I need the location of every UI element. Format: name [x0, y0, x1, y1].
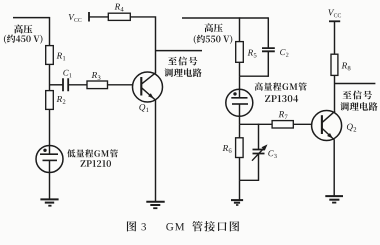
label C2	[280, 49, 285, 55]
wire: rail to R5	[239, 17, 241, 41]
label: ZP1210	[81, 160, 111, 167]
label: HV supply text 高压 (2)	[204, 23, 222, 32]
wire: R5 to join	[239, 62, 241, 76]
GM tube 2 envelope	[226, 89, 253, 116]
transistor Q1 collector stroke	[141, 73, 156, 85]
wire: GM tube 2 cathode to node B	[239, 104, 241, 124]
capacitor C2	[262, 48, 275, 51]
wire: node A to C1	[50, 84, 64, 86]
resistor R4	[108, 13, 130, 20]
wire: R4 to collector corner	[130, 16, 156, 73]
label: figure caption 图 3 GM 管接口图	[127, 221, 136, 231]
transistor Q1 emitter stroke	[141, 88, 155, 100]
label C1	[63, 70, 68, 76]
wire: join to GM tube 2	[239, 76, 241, 98]
resistor R6	[236, 138, 244, 158]
wire: output 2 branch	[335, 83, 376, 85]
label: 调理电路 (2)	[340, 102, 377, 111]
label C3	[268, 150, 273, 156]
wire: C1 to R3	[68, 84, 87, 86]
wire: rail to C2	[267, 17, 269, 48]
label R8	[342, 62, 348, 68]
label: (约550 V)	[194, 35, 233, 44]
wire: R2 to GM tube 1	[49, 109, 51, 154]
wire: C3 to bottom rail	[258, 154, 260, 181]
capacitor C1	[63, 78, 68, 91]
wire: bottom rail connector	[240, 179, 259, 181]
GM tube 1 lower electrode	[43, 159, 58, 161]
label R2	[57, 96, 63, 102]
label: 低量程GM管	[67, 149, 118, 157]
wire: R3 to Q1 base	[108, 84, 133, 86]
wire: C2 to join	[267, 51, 269, 77]
wire: divider top vertical	[49, 17, 51, 46]
ground: under Q1	[146, 201, 164, 203]
label R4	[115, 4, 121, 10]
label: 至信号 (1)	[168, 57, 197, 66]
ground: under GM tube 1	[40, 198, 58, 200]
capacitor C3 plates	[253, 150, 265, 154]
wire: bottom rail to ground	[239, 180, 241, 200]
wire: Q2 emitter to ground	[333, 140, 335, 197]
ground: under Q2	[325, 195, 343, 197]
wire: R6 to bottom rail	[239, 158, 241, 181]
ground: circuit 2 divider	[231, 199, 243, 201]
label: ZP1304	[265, 95, 298, 102]
transistor Q1 base bar	[140, 77, 142, 96]
transistor Q2 base bar	[321, 115, 323, 134]
transistor Q2 collector stroke	[322, 111, 335, 123]
GM tube 2 lower electrode	[232, 103, 248, 105]
label: 调理电路 (1)	[164, 68, 201, 77]
label R7	[279, 111, 285, 117]
label: (约450 V)	[4, 35, 43, 44]
resistor R3	[87, 81, 108, 89]
resistor R2	[46, 91, 54, 110]
wire: R1 to node A	[49, 64, 51, 90]
wire: R8 to Q2 collector	[334, 75, 336, 111]
wire: output 1 branch	[156, 50, 203, 52]
power Vcc2 label	[328, 9, 334, 15]
wire: Q1 emitter to ground	[155, 100, 157, 202]
transistor Q1 body	[133, 72, 163, 102]
resistor R5	[236, 42, 244, 63]
resistor R8	[331, 54, 338, 75]
label: 至信号 (2)	[343, 91, 372, 100]
wire: R7 to Q2 base	[293, 123, 311, 125]
label R6	[223, 145, 229, 151]
label R5	[248, 50, 254, 56]
power Vcc1 label	[69, 14, 75, 20]
GM tube 1 envelope	[36, 146, 63, 173]
GM tube 1 upper electrode	[40, 153, 58, 155]
resistor R1	[46, 46, 54, 65]
label R1	[57, 53, 63, 59]
wire: Vcc1 to R4	[89, 16, 108, 18]
GM tube 2 upper electrode	[231, 97, 247, 99]
wire: node B to C3 branch	[258, 124, 260, 150]
power Vcc2 terminal bar	[329, 20, 340, 22]
transistor Q2 emitter stroke	[322, 128, 334, 140]
wire: R5/C2 join connector	[240, 75, 269, 77]
wire: GM tube 1 cathode to ground	[49, 160, 51, 199]
wire: HV2 top rail	[182, 17, 268, 19]
wire: node B to R7	[240, 123, 273, 125]
transistor Q2 body	[312, 111, 342, 141]
resistor R7	[272, 121, 293, 128]
label R3	[92, 72, 98, 78]
label Q1	[139, 104, 145, 112]
wire: HV1 input horizontal	[13, 17, 50, 19]
GM tube 1 anode dot	[43, 149, 46, 152]
wire: Vcc2 to R8	[334, 21, 336, 54]
power Vcc1 terminal tick	[88, 12, 90, 22]
capacitor C3 variable arrow	[252, 147, 266, 161]
wire: node B to R6	[239, 124, 241, 138]
GM tube 2 anode dot	[233, 92, 236, 95]
label: 高量程GM管	[255, 82, 307, 90]
label Q2	[347, 124, 353, 132]
label: HV supply text 高压	[14, 25, 32, 34]
